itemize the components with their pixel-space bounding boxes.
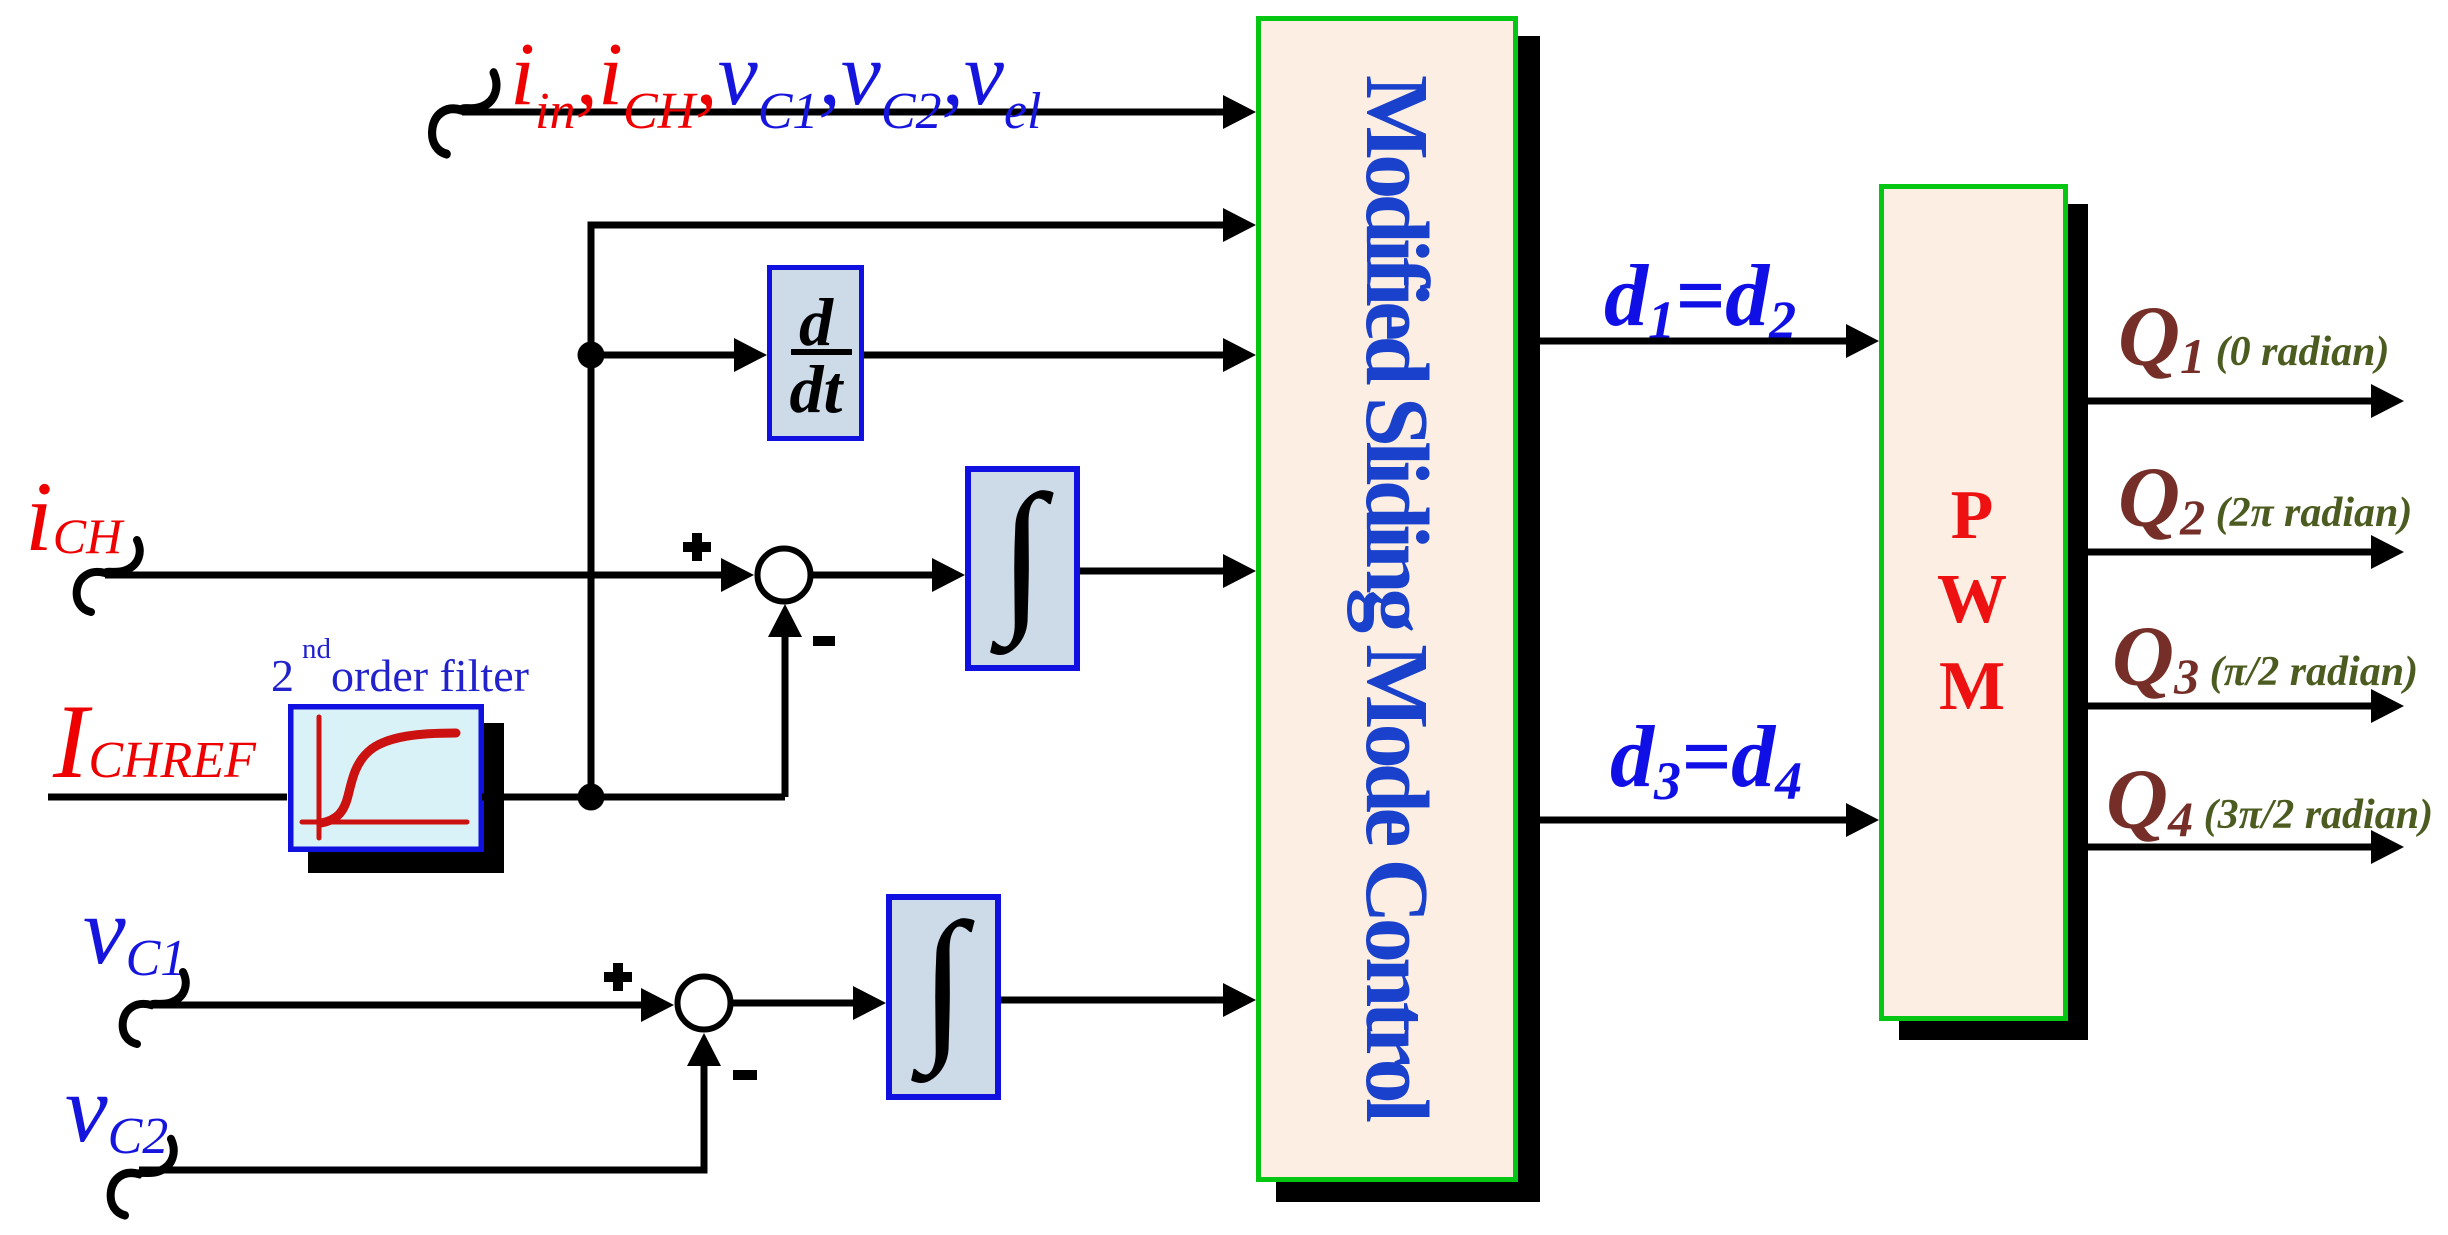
squiggle top input	[432, 73, 496, 154]
wire I_CHREF input	[48, 794, 287, 801]
svg-text:W: W	[1937, 561, 2007, 638]
svg-text:nd: nd	[302, 633, 332, 665]
summing junction 2	[678, 977, 731, 1030]
wire branch to d/dt	[591, 352, 737, 359]
block integrator 2	[889, 897, 998, 1097]
wire v_C2 input	[139, 1167, 708, 1174]
wire d1=d2	[1540, 338, 1849, 345]
wire Q2 output	[2088, 549, 2374, 556]
label plus sign sum1	[683, 533, 711, 561]
block 2nd order filter shadow	[308, 723, 504, 873]
svg-text:d: d	[799, 284, 834, 360]
block PWM	[1882, 187, 2066, 1019]
block PWM shadow	[1899, 204, 2088, 1040]
wire minus feed into sum1	[782, 634, 789, 797]
label minus sign sum1	[813, 636, 835, 646]
squiggle v_C1	[123, 972, 186, 1044]
filter response curve	[321, 733, 456, 823]
svg-text:order filter: order filter	[331, 650, 529, 701]
svg-text:dt: dt	[790, 351, 845, 427]
block integrator 1	[968, 469, 1077, 668]
squiggle i_CH	[77, 540, 140, 612]
filter response curve vertical axis	[317, 717, 322, 838]
block d/dt	[770, 268, 862, 439]
svg-text:∫: ∫	[911, 889, 975, 1084]
wire filter output	[482, 794, 785, 801]
svg-text:P: P	[1951, 477, 1994, 554]
wire integrator2 output	[1001, 997, 1226, 1004]
wire top input line	[462, 109, 1226, 116]
svg-text:Modified Sliding Mode Control: Modified Sliding Mode Control	[1347, 75, 1446, 1123]
wire d/dt output	[864, 352, 1226, 359]
svg-text:d3=d4: d3=d4	[1610, 709, 1802, 811]
node junction to d/dt	[578, 342, 605, 369]
label plus sign sum2	[604, 963, 632, 991]
summing junction 1	[758, 549, 811, 602]
wire sum1 to integrator1	[810, 572, 935, 579]
node junction filter output	[578, 784, 605, 811]
wire Q4 output	[2088, 844, 2374, 851]
block MSMC (Modified Sliding Mode Control)	[1259, 19, 1516, 1180]
wire second input line	[591, 222, 1226, 229]
block 2nd order filter	[291, 707, 482, 850]
squiggle v_C2	[111, 1139, 174, 1215]
filter response curve horizontal axis	[302, 820, 467, 825]
wire Q1 output	[2088, 398, 2374, 405]
label minus sign sum2	[733, 1070, 757, 1080]
svg-text:2: 2	[271, 650, 294, 701]
wire sum2 to integrator2	[730, 1000, 856, 1007]
wire integrator1 output	[1080, 568, 1226, 575]
svg-text:d1=d2: d1=d2	[1604, 248, 1796, 350]
block MSMC shadow	[1276, 36, 1540, 1202]
svg-text:∫: ∫	[990, 461, 1054, 656]
wire v_C1 input	[151, 1002, 644, 1009]
wire minus feed into sum2	[701, 1063, 708, 1170]
wire Q3 output	[2088, 703, 2374, 710]
wire d3=d4	[1540, 817, 1849, 824]
wire i_CH input	[105, 572, 724, 579]
wire vertical feed line	[588, 222, 595, 798]
svg-text:M: M	[1939, 648, 2005, 725]
